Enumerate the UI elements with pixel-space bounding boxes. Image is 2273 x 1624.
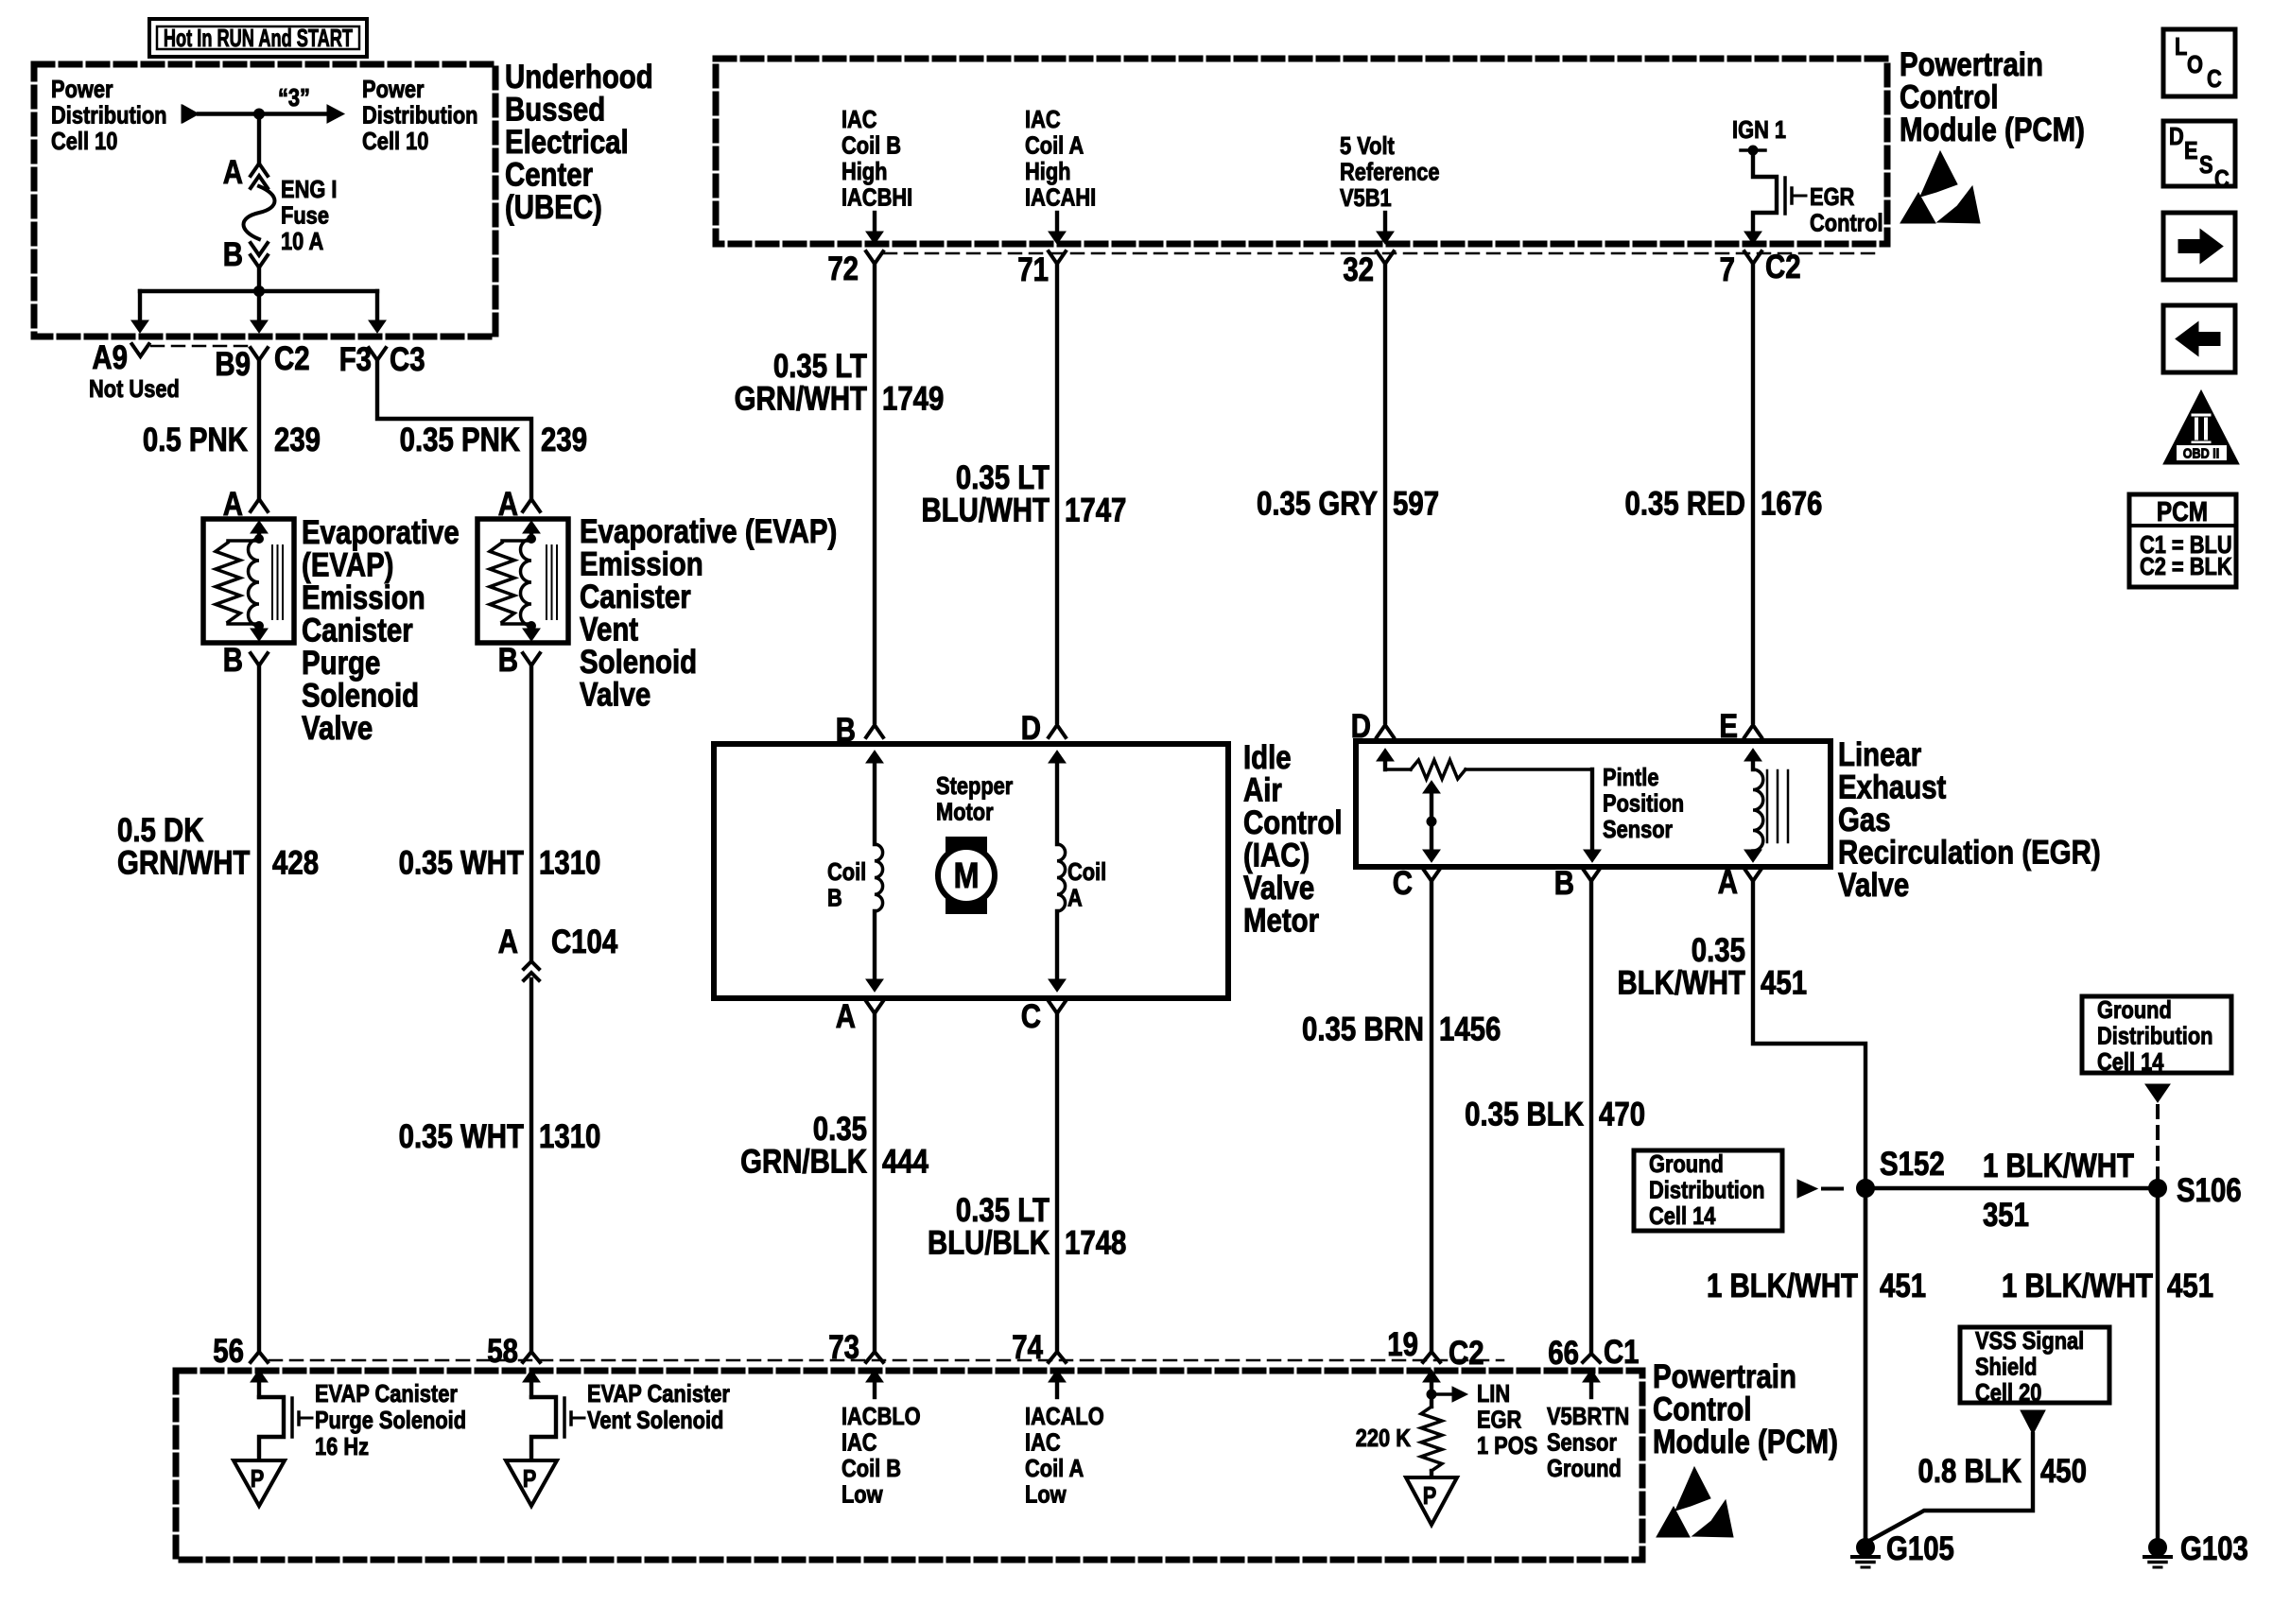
svg-text:IAC: IAC [1025, 106, 1061, 133]
connector line C2 bottom (thin dashed) [269, 1359, 1503, 1362]
svg-text:Module (PCM): Module (PCM) [1900, 112, 2085, 148]
svg-text:B: B [223, 236, 243, 273]
svg-text:Stepper: Stepper [936, 772, 1013, 800]
transistor EGR control driver [1753, 150, 1777, 234]
svg-text:M: M [954, 856, 980, 896]
PCM connector legend box [2129, 494, 2236, 587]
wire 1456 EGR C to pin 19 [1430, 881, 1433, 1351]
pin 72 arrow [873, 213, 876, 236]
svg-text:Underhood: Underhood [505, 59, 653, 95]
svg-text:Canister: Canister [580, 579, 691, 615]
svg-text:High: High [1025, 158, 1071, 185]
svg-text:Ground: Ground [1547, 1455, 1622, 1482]
svg-text:A: A [1718, 864, 1738, 901]
svg-text:0.5 PNK: 0.5 PNK [143, 422, 249, 458]
svg-text:Cell 10: Cell 10 [362, 128, 428, 155]
svg-text:E: E [1719, 708, 1738, 745]
svg-text:0.35 LT: 0.35 LT [773, 348, 867, 385]
svg-text:428: 428 [272, 844, 319, 881]
svg-text:Bussed: Bussed [505, 91, 605, 128]
svg-text:IAC: IAC [1025, 1429, 1061, 1457]
connector chevron EGR E [1744, 725, 1761, 737]
wire drop A9 [138, 291, 142, 322]
svg-text:0.35 BRN: 0.35 BRN [1302, 1011, 1424, 1047]
svg-text:Purge: Purge [302, 645, 380, 682]
transistor EVAP purge solenoid driver [259, 1397, 284, 1460]
svg-text:(IAC): (IAC) [1243, 837, 1310, 873]
svg-text:Linear: Linear [1838, 736, 1922, 773]
pin 66 entry arrow [1583, 1370, 1600, 1382]
connector chevron A9 [132, 344, 149, 356]
connector chevron EGR B [1583, 869, 1600, 881]
connector chevron EVAP vent B [523, 653, 540, 665]
svg-text:OBD II: OBD II [2183, 444, 2219, 460]
ESD symbol bottom [1675, 1467, 1710, 1511]
svg-text:Recirculation (EGR): Recirculation (EGR) [1838, 834, 2101, 871]
svg-text:Low: Low [842, 1481, 883, 1509]
connector chevron IAC A [866, 1001, 883, 1013]
svg-text:1 POS: 1 POS [1477, 1432, 1537, 1460]
svg-text:P: P [1423, 1482, 1437, 1510]
node distribution junction [254, 286, 265, 297]
transistor EVAP vent solenoid driver [531, 1397, 556, 1460]
svg-text:D: D [1351, 708, 1371, 745]
svg-text:P: P [251, 1465, 265, 1493]
wire S106 to G103 [2156, 1188, 2160, 1543]
svg-text:56: 56 [213, 1333, 244, 1370]
svg-text:GRN/WHT: GRN/WHT [735, 380, 868, 417]
wire distribution bus [140, 289, 377, 293]
svg-text:1 BLK/WHT: 1 BLK/WHT [1983, 1148, 2134, 1184]
svg-text:A9: A9 [92, 339, 128, 376]
svg-text:Vent Solenoid: Vent Solenoid [587, 1407, 723, 1434]
svg-text:D: D [1021, 710, 1041, 747]
node junction at fuse top [254, 109, 265, 119]
svg-text:Distribution: Distribution [362, 102, 477, 130]
svg-text:Fuse: Fuse [281, 202, 329, 230]
wire drop F3 [375, 291, 379, 322]
connector chevron IAC B [866, 725, 883, 737]
svg-text:Ground: Ground [1649, 1150, 1724, 1178]
wire power feed with arrows [182, 105, 199, 123]
svg-text:Exhaust: Exhaust [1838, 769, 1947, 805]
PCM bottom dashed enclosure [176, 1371, 1642, 1560]
connector chevrons fuse terminal B [251, 243, 268, 255]
wire S152 to S106 [1865, 1186, 2158, 1190]
ground G105 [1857, 1539, 1875, 1557]
svg-text:0.35: 0.35 [1692, 932, 1745, 969]
arrow below VSS box [2021, 1410, 2045, 1434]
svg-text:Power: Power [362, 76, 425, 103]
P triangle vent [506, 1460, 557, 1506]
svg-text:Emission: Emission [302, 579, 425, 616]
svg-text:BLU/WHT: BLU/WHT [921, 492, 1050, 528]
UBEC dashed enclosure [34, 64, 495, 337]
svg-text:C: C [1021, 998, 1041, 1035]
svg-text:“3”: “3” [278, 84, 310, 112]
fuse ENG I (S-curve) [244, 186, 275, 239]
svg-text:Powertrain: Powertrain [1900, 46, 2043, 83]
svg-text:A: A [498, 924, 518, 960]
svg-text:Power: Power [51, 76, 113, 103]
svg-text:BLU/BLK: BLU/BLK [928, 1224, 1050, 1261]
svg-text:LIN: LIN [1477, 1380, 1510, 1408]
svg-text:Solenoid: Solenoid [302, 677, 419, 714]
svg-text:C3: C3 [390, 341, 425, 378]
svg-text:220 K: 220 K [1356, 1425, 1412, 1452]
svg-text:B: B [223, 642, 243, 679]
svg-text:1 BLK/WHT: 1 BLK/WHT [1707, 1268, 1858, 1304]
splice S152 [1857, 1180, 1875, 1198]
svg-text:74: 74 [1012, 1329, 1043, 1366]
svg-text:B: B [1554, 865, 1574, 902]
connector chevron IAC D [1049, 725, 1066, 737]
svg-text:0.35 WHT: 0.35 WHT [399, 1118, 525, 1155]
svg-text:B: B [836, 712, 856, 749]
wire fuse B to distribution junction [257, 269, 261, 291]
svg-text:Idle: Idle [1243, 739, 1292, 776]
svg-text:S: S [2199, 151, 2213, 179]
svg-text:C: C [2207, 65, 2222, 93]
EGR pintle wiper [1430, 788, 1433, 849]
P triangle purge [234, 1460, 285, 1506]
svg-text:V5BRTN: V5BRTN [1547, 1403, 1629, 1430]
svg-text:1 BLK/WHT: 1 BLK/WHT [2002, 1268, 2153, 1304]
svg-text:1748: 1748 [1065, 1224, 1126, 1261]
svg-text:Valve: Valve [1243, 870, 1314, 907]
wire 1749 pin72 to IAC B [873, 264, 876, 722]
svg-text:A: A [223, 154, 243, 191]
connector C104 inline chevrons [524, 961, 539, 969]
svg-text:0.35 RED: 0.35 RED [1625, 485, 1745, 522]
svg-text:1747: 1747 [1065, 492, 1126, 528]
node IGN 1 feed [1741, 148, 1765, 152]
svg-text:Control: Control [1900, 78, 1998, 115]
wire EVAP vent B to C104 [529, 665, 533, 959]
svg-text:Shield: Shield [1975, 1354, 2038, 1381]
svg-text:E: E [2184, 137, 2198, 164]
svg-text:Cell 14: Cell 14 [2097, 1048, 2164, 1076]
svg-text:B9: B9 [215, 346, 251, 383]
svg-text:19: 19 [1387, 1326, 1418, 1363]
svg-text:1456: 1456 [1439, 1011, 1501, 1047]
svg-text:451: 451 [2167, 1268, 2213, 1304]
svg-text:Module (PCM): Module (PCM) [1653, 1424, 1838, 1460]
svg-text:C1: C1 [1604, 1334, 1640, 1371]
svg-text:Coil: Coil [827, 858, 866, 886]
arrow below right ground dist box [2145, 1084, 2170, 1102]
pin 73 entry arrow [866, 1370, 883, 1382]
EGR solenoid coil [1751, 762, 1755, 769]
svg-text:BLK/WHT: BLK/WHT [1617, 964, 1745, 1001]
EGR valve box [1356, 741, 1831, 867]
svg-text:73: 73 [828, 1329, 859, 1366]
svg-text:239: 239 [274, 422, 321, 458]
svg-text:Evaporative: Evaporative [302, 514, 460, 551]
svg-text:L: L [2175, 33, 2187, 60]
node LIN EGR junction [1427, 1390, 1436, 1399]
svg-text:444: 444 [882, 1143, 928, 1180]
svg-text:C: C [1393, 865, 1413, 902]
svg-text:Vent: Vent [580, 611, 638, 648]
svg-text:451: 451 [1880, 1268, 1926, 1304]
svg-text:IACBLO: IACBLO [842, 1403, 921, 1430]
svg-text:Evaporative (EVAP): Evaporative (EVAP) [580, 513, 837, 550]
svg-text:IAC: IAC [842, 1429, 877, 1457]
pin 71 arrow [1055, 213, 1059, 236]
dashed wire to S106 [2156, 1106, 2160, 1179]
svg-text:Hot In RUN And START: Hot In RUN And START [164, 25, 353, 52]
label box Hot In RUN And START [149, 19, 367, 57]
svg-text:Ground: Ground [2097, 996, 2172, 1024]
svg-text:351: 351 [1983, 1197, 2029, 1234]
svg-text:451: 451 [1761, 964, 1807, 1001]
IAC coil A branch [1055, 762, 1059, 844]
svg-text:O: O [2187, 51, 2203, 78]
svg-text:Control: Control [1243, 804, 1342, 841]
svg-text:Sensor: Sensor [1547, 1429, 1617, 1457]
svg-text:0.35 LT: 0.35 LT [956, 459, 1050, 496]
connector line A9-B9 (thin dashed) [151, 345, 250, 348]
svg-text:B: B [827, 885, 842, 912]
svg-text:ENG I: ENG I [281, 176, 337, 203]
arrow to LIN EGR [1431, 1392, 1452, 1396]
connector chevron EVAP purge B [251, 653, 268, 665]
svg-text:C104: C104 [551, 924, 617, 960]
svg-text:EVAP Canister: EVAP Canister [315, 1380, 458, 1408]
svg-text:Canister: Canister [302, 612, 413, 648]
svg-text:0.35 GRY: 0.35 GRY [1257, 485, 1378, 522]
P triangle 220K [1406, 1477, 1457, 1525]
svg-text:VSS Signal: VSS Signal [1975, 1327, 2084, 1355]
IAC coil B branch [873, 762, 876, 844]
svg-text:Reference: Reference [1340, 159, 1440, 186]
svg-text:1310: 1310 [539, 1118, 600, 1155]
svg-text:Distribution: Distribution [1649, 1177, 1764, 1204]
svg-text:Distribution: Distribution [2097, 1023, 2212, 1050]
OBD II triangle [2163, 390, 2239, 464]
pin 56 entry arrow [251, 1370, 268, 1382]
svg-text:GRN/WHT: GRN/WHT [117, 844, 251, 881]
svg-text:Emission: Emission [580, 545, 703, 582]
svg-text:G105: G105 [1886, 1530, 1954, 1567]
svg-text:0.35: 0.35 [813, 1111, 867, 1148]
svg-text:Solenoid: Solenoid [580, 644, 697, 681]
svg-text:Valve: Valve [302, 710, 373, 747]
splice S106 [2149, 1180, 2167, 1198]
stepper motor M [946, 837, 987, 914]
pin 32 arrow [1383, 213, 1387, 236]
svg-text:Control: Control [1810, 210, 1883, 237]
wire junction to fuse A [257, 114, 261, 163]
svg-text:239: 239 [541, 422, 587, 458]
pin 58 entry arrow [523, 1370, 540, 1382]
svg-text:Position: Position [1603, 790, 1684, 818]
svg-text:1310: 1310 [539, 844, 600, 881]
wire 470 EGR B to pin 66 [1589, 881, 1593, 1353]
svg-text:Air: Air [1243, 771, 1282, 808]
svg-text:EVAP Canister: EVAP Canister [587, 1380, 730, 1408]
svg-text:C2: C2 [1449, 1335, 1484, 1372]
svg-text:10 A: 10 A [281, 228, 323, 255]
svg-text:IACBHI: IACBHI [842, 184, 912, 212]
svg-text:597: 597 [1393, 485, 1439, 522]
svg-text:G103: G103 [2180, 1530, 2248, 1567]
ESD symbol top [1920, 151, 1957, 197]
IAC valve box [714, 744, 1228, 998]
wire C104 to pin 58 [529, 979, 533, 1351]
EGR pintle potentiometer [1383, 762, 1387, 769]
DESC legend box [2163, 121, 2235, 186]
svg-text:PCM: PCM [2157, 496, 2208, 527]
svg-text:S106: S106 [2177, 1172, 2242, 1209]
connector line C2 top (thin dashed) [884, 252, 1882, 255]
svg-text:0.5 DK: 0.5 DK [117, 812, 204, 849]
svg-text:Motor: Motor [936, 799, 994, 826]
svg-text:Center: Center [505, 156, 593, 193]
pin 74 entry arrow [1049, 1370, 1066, 1382]
svg-text:1676: 1676 [1761, 485, 1822, 522]
svg-text:B: B [498, 642, 518, 679]
EVAP purge solenoid valve (resistor+coil) [203, 519, 294, 643]
svg-text:P: P [523, 1465, 537, 1493]
VSS Signal Shield Cell 20 box [1960, 1327, 2109, 1403]
connector chevron EVAP vent A [523, 499, 540, 511]
svg-text:66: 66 [1548, 1335, 1579, 1372]
arrow from ground dist box [1797, 1180, 1817, 1198]
svg-text:5 Volt: 5 Volt [1340, 132, 1395, 160]
wire B9 down to EVAP purge A [257, 360, 261, 498]
wire S152 to G105 [1864, 1188, 1867, 1543]
resistor 220 K [1430, 1394, 1433, 1407]
LOC legend box [2163, 29, 2235, 96]
svg-text:32: 32 [1343, 251, 1374, 288]
svg-text:58: 58 [487, 1333, 518, 1370]
wire VSS shield drain 450 [1869, 1434, 2033, 1541]
svg-text:Pintle: Pintle [1603, 764, 1658, 791]
wire 451 EGR A to S152 [1753, 881, 1865, 1543]
EVAP vent solenoid valve (resistor+coil) [477, 519, 568, 643]
wire 597 pin32 to EGR D [1383, 264, 1387, 722]
svg-text:470: 470 [1599, 1096, 1645, 1132]
svg-text:Coil B: Coil B [842, 132, 901, 160]
svg-text:IACALO: IACALO [1025, 1403, 1104, 1430]
svg-text:C2: C2 [274, 340, 310, 377]
svg-text:(EVAP): (EVAP) [302, 546, 393, 583]
svg-text:Electrical: Electrical [505, 124, 629, 161]
wire 1747 pin71 to IAC D [1055, 264, 1059, 722]
svg-text:(UBEC): (UBEC) [505, 189, 602, 226]
svg-text:Coil: Coil [1067, 858, 1106, 886]
ground G103 [2149, 1539, 2167, 1557]
svg-text:IGN 1: IGN 1 [1732, 116, 1786, 144]
wire 1676 pin7 to EGR E [1751, 264, 1755, 722]
connector chevron IAC C [1049, 1001, 1066, 1013]
svg-text:Metor: Metor [1243, 902, 1319, 939]
svg-text:Valve: Valve [580, 676, 651, 713]
left arrow legend box [2163, 305, 2235, 372]
connector chevron F3 C3 [369, 348, 386, 360]
svg-text:S152: S152 [1880, 1146, 1945, 1183]
svg-text:Coil B: Coil B [842, 1455, 901, 1482]
wire drop B9 [257, 291, 261, 322]
svg-text:A: A [1067, 885, 1083, 912]
wire 444 IAC A to pin 73 [873, 1013, 876, 1351]
PCM top dashed enclosure [716, 59, 1887, 244]
svg-text:C2: C2 [1765, 249, 1801, 285]
svg-text:High: High [842, 158, 888, 185]
svg-text:0.35 BLK: 0.35 BLK [1465, 1096, 1584, 1132]
svg-text:Distribution: Distribution [51, 102, 166, 130]
connector chevron EGR C [1423, 869, 1440, 881]
svg-text:0.35 WHT: 0.35 WHT [399, 844, 525, 881]
svg-text:Cell 20: Cell 20 [1975, 1379, 2041, 1407]
svg-text:16 Hz: 16 Hz [315, 1433, 369, 1460]
svg-text:Low: Low [1025, 1481, 1067, 1509]
Ground Distribution Cell 14 box right [2082, 996, 2231, 1073]
wire F3 step to EVAP vent A [377, 360, 531, 498]
svg-text:Powertrain: Powertrain [1653, 1358, 1796, 1395]
svg-text:Cell 14: Cell 14 [1649, 1202, 1716, 1230]
svg-text:Coil A: Coil A [1025, 132, 1084, 160]
wire EVAP purge B to pin 56 [257, 665, 261, 1351]
connector chevron EGR D [1377, 725, 1394, 737]
connector chevron EGR A [1744, 869, 1761, 881]
svg-text:0.35 PNK: 0.35 PNK [400, 422, 521, 458]
svg-text:72: 72 [827, 251, 859, 287]
svg-text:Gas: Gas [1838, 802, 1891, 838]
svg-text:Valve: Valve [1838, 867, 1909, 904]
svg-text:Cell 10: Cell 10 [51, 128, 117, 155]
svg-text:Not Used: Not Used [89, 375, 180, 403]
connector chevron B9 C2 [251, 348, 268, 360]
svg-text:Purge Solenoid: Purge Solenoid [315, 1407, 466, 1434]
svg-text:1749: 1749 [882, 380, 944, 417]
svg-text:C2 = BLK: C2 = BLK [2140, 553, 2232, 580]
svg-text:A: A [836, 998, 856, 1035]
connector chevron EVAP purge A [251, 499, 268, 511]
connector chevrons fuse terminal A [251, 164, 268, 176]
svg-text:EGR: EGR [1810, 183, 1854, 211]
svg-text:D: D [2169, 123, 2184, 150]
pin 19 entry arrow [1423, 1370, 1440, 1382]
svg-text:IAC: IAC [842, 106, 877, 133]
svg-text:Sensor: Sensor [1603, 816, 1673, 843]
svg-text:7: 7 [1720, 251, 1735, 288]
svg-text:71: 71 [1017, 251, 1049, 288]
wire 1748 IAC C to pin 74 [1055, 1013, 1059, 1351]
svg-text:450: 450 [2040, 1453, 2087, 1490]
svg-text:C: C [2214, 165, 2230, 193]
svg-text:GRN/BLK: GRN/BLK [740, 1143, 867, 1180]
svg-text:0.35 LT: 0.35 LT [956, 1192, 1050, 1229]
svg-text:Control: Control [1653, 1391, 1751, 1427]
right arrow legend box [2163, 213, 2235, 280]
svg-text:EGR: EGR [1477, 1407, 1521, 1434]
svg-text:IACAHI: IACAHI [1025, 184, 1096, 212]
svg-text:0.8 BLK: 0.8 BLK [1918, 1453, 2022, 1490]
svg-text:Coil A: Coil A [1025, 1455, 1084, 1482]
svg-text:V5B1: V5B1 [1340, 184, 1392, 212]
Ground Distribution Cell 14 box left [1634, 1150, 1782, 1231]
svg-text:F3: F3 [339, 341, 372, 378]
